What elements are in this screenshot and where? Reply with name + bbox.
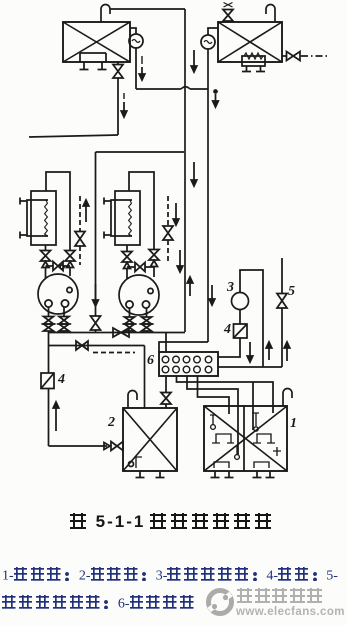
wire to pump P2 suction — [126, 269, 128, 280]
label 5 bunker line — [288, 284, 295, 300]
gooseneck vent on tank 1 — [283, 389, 292, 407]
pump P1 transfer pump vent port — [67, 287, 72, 292]
manifold top valve 1 — [162, 356, 169, 363]
wire P1 discharge drop — [63, 307, 65, 317]
legend line 2: 燃油注入管系; 6-调驳阀箱 — [2, 595, 197, 613]
filter F2 filter element — [129, 200, 132, 236]
flow arrow mid riser — [193, 162, 195, 180]
filter F1 inner basket — [27, 200, 48, 236]
tank 1 bell TR — [254, 427, 258, 431]
wire tank outlet — [117, 62, 119, 65]
flow dash — [123, 93, 125, 99]
watermark url — [236, 606, 345, 618]
pump P2 transfer pump casing — [119, 275, 159, 315]
manifold top valve 5 — [205, 356, 212, 363]
support leg — [225, 471, 234, 478]
support leg — [253, 471, 262, 478]
wire — [146, 331, 148, 333]
gooseneck vent on left tank — [101, 5, 110, 23]
open flow arrowhead — [42, 262, 49, 268]
crossover valve P1 — [53, 262, 63, 271]
relief valve P1 — [75, 232, 85, 247]
flow arrow up to filter 4 — [55, 408, 57, 431]
gooseneck vent on tank 2 — [128, 391, 137, 409]
wire to settling tank inlet — [49, 445, 108, 447]
pump P1 transfer pump suction port — [45, 300, 52, 307]
tank 1 center bulkhead — [243, 406, 245, 471]
pump P2 transfer pump vent port — [148, 288, 153, 293]
bypass valve P2 — [149, 250, 159, 261]
drain dot — [60, 265, 64, 269]
support leg — [266, 471, 275, 478]
valve spring cap — [224, 3, 233, 8]
manifold top valve 2 — [173, 356, 180, 363]
filter 4b diagonal — [234, 324, 248, 338]
open flow arrowhead — [124, 263, 131, 269]
wire gauge tap — [130, 28, 136, 34]
filter F2 inner basket — [111, 200, 132, 236]
gooseneck vent on right tank — [266, 5, 275, 23]
wire P2 suction drop — [129, 308, 131, 317]
flow arrow on relief 2 — [175, 203, 177, 219]
wire branch to settling tank — [49, 345, 145, 347]
wire relief dash — [79, 246, 81, 265]
flow arrow on gauge drop — [141, 67, 143, 74]
branch valve — [76, 341, 88, 350]
wire filter 4 outlet down — [48, 389, 50, 447]
filter F2 upper flange — [104, 198, 111, 205]
wire into settling tank — [165, 404, 167, 408]
support leg — [98, 62, 107, 70]
wire manifold port 4 to tank 1 — [198, 376, 230, 414]
tank internal heater frame — [80, 53, 106, 62]
filter F1 filter element — [45, 200, 48, 236]
label 6 manifold — [147, 353, 154, 369]
flow arrow on relief — [85, 206, 87, 222]
caption: 图 5-1-1 燃油系统简图 — [0, 512, 346, 532]
wire manifold to filter 4b — [218, 338, 240, 357]
wire to collector — [63, 331, 65, 333]
wire drop into settling tank — [144, 346, 146, 409]
pump P1 transfer pump discharge port — [61, 300, 68, 307]
P1 discharge valve lower — [59, 324, 69, 331]
bunker line valve 5 — [277, 294, 287, 309]
tank, top-right service tank — [218, 22, 282, 62]
flow arrow beside riser 1 — [179, 250, 181, 266]
wire to pump P2 — [153, 267, 155, 278]
wire to filling valve — [282, 55, 287, 57]
wire branch into tank 1 center — [252, 382, 254, 430]
wire P2 discharge drop — [146, 308, 148, 317]
tank 2 suction pipe — [136, 457, 142, 468]
label 3 pump — [227, 280, 234, 296]
flow arrow on riser — [193, 50, 195, 66]
flow arrow down — [249, 342, 251, 356]
wire filter F1 bypass loop — [46, 172, 70, 251]
support leg — [256, 66, 265, 72]
wire filter F1 outlet — [45, 245, 47, 251]
wire to pump P1 — [69, 268, 71, 277]
tank 1 bell BL — [235, 455, 240, 460]
gauge on left tank — [129, 34, 143, 48]
manifold valve chest 6 — [159, 352, 218, 376]
flow arrow up beside riser 1 — [189, 283, 191, 296]
P1 suction valve upper — [44, 317, 54, 325]
bypass valve P1 — [65, 251, 75, 262]
tank 1 suction TL — [212, 434, 234, 443]
crossover valve P2 — [135, 263, 145, 272]
gauge on right tank — [201, 35, 215, 49]
wire filter 4b to pump 3 — [239, 310, 241, 325]
wire down to filter 4 — [48, 331, 50, 373]
label 4 filter — [58, 372, 65, 388]
collector isolating valve — [113, 328, 129, 337]
tank 2 settling tank — [123, 408, 177, 471]
tank 1 suction BL — [214, 462, 229, 468]
tank 1 pipe BL — [236, 446, 238, 454]
manifold top valve 3 — [183, 356, 190, 363]
wire cross tie — [46, 265, 71, 267]
junction dot — [214, 90, 217, 93]
wire to pump P1 suction — [45, 268, 47, 279]
filter F2 lower flange — [104, 232, 111, 239]
settling tank inlet valve — [111, 442, 123, 451]
filter F2 outer shell — [115, 191, 140, 245]
flow arrow down beside drop — [123, 102, 125, 111]
wire manifold port 1 down — [165, 376, 167, 393]
flow arrow up — [268, 348, 270, 360]
filter 4 body — [41, 373, 54, 389]
pump P1 transfer pump casing — [38, 274, 78, 314]
outlet valve under left tank — [113, 65, 123, 79]
tank 2 suction bell — [129, 462, 134, 467]
watermark text 电子发烧友 — [237, 588, 325, 606]
flow arrow up — [286, 348, 288, 361]
wire pump loop left drop — [95, 152, 97, 316]
wire filter F2 outlet — [126, 245, 128, 252]
support leg — [80, 62, 89, 70]
tank 1 sounding pipe TL — [210, 415, 216, 424]
P2 suction valve lower — [125, 324, 135, 331]
open flow arrowhead — [67, 262, 74, 268]
pump P2 transfer pump suction port — [126, 301, 133, 308]
label 2 settling tank — [108, 415, 115, 431]
wire relief dash line P1 — [79, 196, 81, 231]
wire riser 2 to manifold — [159, 342, 208, 352]
heating coil element — [244, 53, 263, 59]
P2 discharge valve upper — [142, 317, 152, 324]
heating coil box — [242, 56, 265, 66]
wire bunker line 5 upper — [281, 258, 283, 294]
wire horizontal suction header — [29, 135, 118, 137]
flow dash — [141, 56, 143, 64]
wire P1 suction drop — [48, 307, 50, 317]
label 4 filter b — [224, 322, 231, 338]
P2 suction valve upper — [125, 317, 135, 324]
P2 discharge valve lower — [142, 324, 152, 331]
flow arrow beside riser 2 — [211, 285, 213, 299]
wire cross line with hop to right main — [136, 87, 208, 89]
valve on loop drop — [91, 316, 101, 330]
P1 discharge valve upper — [59, 317, 69, 325]
filter F1 upper flange — [20, 198, 27, 205]
tank 1 bell TL — [211, 425, 216, 430]
relief valve on right tank top — [223, 10, 233, 22]
wire relief dash — [167, 240, 169, 262]
flow arrow below gauge — [215, 94, 217, 101]
manifold top valve 4 — [194, 356, 201, 363]
tank 1 suction TR — [253, 434, 275, 443]
tank, top-left service tank — [63, 22, 130, 62]
wire dash-dot shore connection — [301, 55, 327, 57]
pump P2 transfer pump discharge port — [142, 301, 149, 308]
open flow arrowhead — [151, 261, 158, 267]
filter 4 diagonal — [41, 373, 54, 389]
wire overflow/vent header at top — [110, 8, 185, 10]
wire main riser 2 — [207, 49, 209, 342]
label 1 tank — [290, 416, 297, 432]
filter F1 outlet valve — [41, 251, 51, 262]
relief valve P2 — [163, 226, 173, 240]
wire gauge tap — [208, 28, 218, 35]
wire manifold port 2 to tank 1 right — [177, 376, 274, 413]
legend line 1: 1-燃油舱; 2-沉淀柜; 3-燃油驳运泵; 4-滤器; 5- — [2, 567, 338, 585]
wire — [95, 330, 97, 333]
manifold bottom valve 4 — [194, 366, 201, 373]
tank 1 suction BR — [254, 462, 269, 468]
filter 4b body — [234, 324, 248, 338]
wire gauge drop line — [135, 48, 137, 89]
filter F2 outlet valve — [122, 252, 132, 263]
filter F1 lower flange — [20, 232, 27, 239]
open arrowhead — [104, 443, 110, 450]
pump 3 transfer pump — [232, 293, 249, 310]
manifold bottom valve 1 — [162, 366, 169, 373]
filling valve on right tank — [287, 52, 301, 61]
support leg — [156, 471, 165, 478]
wire pump 3 discharge loop — [240, 270, 263, 367]
support leg — [242, 66, 251, 72]
wire pump loop header — [96, 151, 185, 153]
wire — [227, 21, 229, 22]
tank 1 sounding pipe TR — [252, 413, 259, 426]
wire pump discharge collector — [49, 332, 186, 334]
wire drop from outlet valve — [117, 78, 119, 135]
wire manifold lower header — [218, 366, 282, 368]
manifold bottom valve 2 — [173, 366, 180, 373]
support leg — [211, 471, 220, 478]
wire — [129, 331, 131, 333]
wire bunker line 5 lower — [281, 308, 283, 367]
wire manifold port 3 to tank 1 — [187, 376, 238, 455]
tank 1 fitting BR — [273, 447, 281, 456]
filter F1 outer shell — [31, 191, 56, 245]
tank 2 fill valve — [161, 393, 171, 405]
P1 suction valve lower — [44, 324, 54, 331]
support leg — [136, 471, 145, 478]
flow arrow on loop drop — [95, 284, 97, 300]
tank 1 fuel oil bunker tank — [204, 406, 287, 471]
wire cross tie — [127, 266, 154, 268]
wire main riser 1 — [184, 9, 186, 332]
wire drop to manifold top — [165, 333, 167, 353]
manifold bottom valve 3 — [183, 366, 190, 373]
manifold bottom valve 5 — [205, 366, 212, 373]
wire relief dash line P2 — [167, 196, 169, 225]
wire dash spill line — [93, 352, 135, 354]
wire filter F2 bypass loop — [129, 172, 154, 250]
